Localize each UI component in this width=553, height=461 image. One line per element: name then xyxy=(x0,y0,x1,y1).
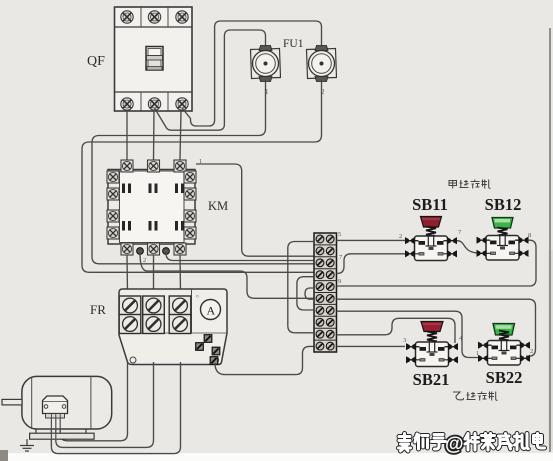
KM screw bot1 xyxy=(121,243,133,255)
FR foot left xyxy=(130,357,136,363)
SB21 terminal rt xyxy=(448,343,458,350)
svg-text:@: @ xyxy=(445,434,464,455)
QF screw 4 bottom xyxy=(121,98,133,110)
QF screw 2 top xyxy=(148,11,160,23)
wire KM T3 to FR xyxy=(179,255,182,293)
watermark souhu hao at kelaiwei jidian xyxy=(399,434,545,456)
wire fuse FU1-2 bottom wrapping left of KM to terminal row 4 xyxy=(82,80,322,272)
wire FR W to motor (col3) xyxy=(51,362,180,454)
svg-text:1: 1 xyxy=(199,158,202,165)
QF screw 6 bottom xyxy=(176,98,188,110)
wire SB11 lb to terminal row4 xyxy=(337,254,406,274)
wire KM T1 to FR xyxy=(126,255,129,293)
SB22 spring xyxy=(499,331,509,341)
svg-text:8: 8 xyxy=(528,232,531,239)
svg-text:SB21: SB21 xyxy=(413,370,450,389)
terminal strip XT xyxy=(314,233,337,352)
wire SB12 rt loop to terminal row5 xyxy=(337,240,537,286)
wire SB11 rt to SB12 lb xyxy=(457,241,477,253)
SB22 terminal lb xyxy=(478,355,488,362)
SB11 terminal lb xyxy=(405,250,415,257)
SB21 body xyxy=(416,341,449,367)
FR dial A xyxy=(201,300,221,320)
svg-text:2: 2 xyxy=(143,257,146,264)
KM screw bot2 xyxy=(148,243,160,255)
SB21 terminal lt xyxy=(406,343,416,350)
wire KM T2 to FR xyxy=(153,255,155,293)
jumper terminal row1 to row9 left loop xyxy=(288,242,314,333)
SB11 terminal rb xyxy=(447,250,457,257)
svg-text:FR: FR xyxy=(90,302,106,317)
KM screw top1 xyxy=(121,160,133,172)
KM screw right2 xyxy=(184,188,196,200)
FR aux screw 96 xyxy=(196,343,204,351)
breaker QF body xyxy=(115,7,193,111)
wire stubs through motor body xyxy=(51,418,60,446)
KM screw left3 xyxy=(107,210,119,222)
wire terminal row7 to SB22 lb xyxy=(337,311,479,357)
SB11 spring xyxy=(426,227,436,237)
KM screw right3 xyxy=(184,210,196,222)
wire FR aux to terminal row 10 xyxy=(215,346,314,374)
wire QF phase to right fuse FU1-2 top xyxy=(182,21,322,126)
wire FR U to motor (col1) xyxy=(60,362,127,441)
svg-text:°: ° xyxy=(196,294,199,302)
KM screw left2 xyxy=(107,188,119,200)
svg-text:1: 1 xyxy=(476,350,479,357)
wire terminal row9 over SB21 to SB21 rt xyxy=(337,318,456,343)
SB12 body xyxy=(486,234,519,260)
SB12 spring xyxy=(498,228,508,238)
KM screw right4 xyxy=(184,227,196,239)
ground xyxy=(20,439,34,451)
FR screw r1c3 xyxy=(169,296,191,315)
svg-text:QF: QF xyxy=(87,54,105,69)
jumper terminal row5 to row6 left loop xyxy=(305,288,314,299)
scan edge right xyxy=(549,28,551,452)
fuse FU1-2 xyxy=(307,46,337,82)
QF screw 1 top xyxy=(121,11,133,23)
FR aux screw 98 xyxy=(210,357,218,365)
label yidi kongzhi (location B control) xyxy=(453,392,498,401)
wire fuse FU1-1 bottom wrapping left of KM to terminal row 3 xyxy=(92,80,314,264)
wire terminal row10 to SB21 lt xyxy=(337,345,406,347)
pushbutton SB12 cap (green) xyxy=(492,218,513,229)
FR screw r2c2 xyxy=(143,315,165,334)
SB12 terminal rb xyxy=(519,250,529,257)
svg-text:2: 2 xyxy=(399,233,402,240)
SB12 terminal lb xyxy=(477,250,487,257)
contactor KM body xyxy=(108,170,195,245)
wire QF L3 to KM xyxy=(180,110,181,160)
pushbutton SB22 cap (green) xyxy=(493,324,515,336)
SB11 terminal rt xyxy=(447,237,457,244)
SB22 terminal lt xyxy=(478,342,488,349)
svg-text:5: 5 xyxy=(338,231,341,238)
wire KM coil A2 to terminal row 2-3 xyxy=(166,253,314,261)
pushbutton SB21 cap (red) xyxy=(421,322,443,332)
thermal relay FR body xyxy=(119,289,227,365)
FR screw r2c1 xyxy=(119,315,141,334)
KM screw left4 xyxy=(107,227,119,239)
motor shaft xyxy=(2,399,22,405)
XT screws xyxy=(316,235,334,350)
motor terminal box xyxy=(43,396,68,414)
breaker QF toggle xyxy=(146,47,163,71)
wire KM coil A1 down right to terminal row 6 xyxy=(140,253,314,298)
QF screw 5 bottom xyxy=(148,98,160,110)
svg-text:9: 9 xyxy=(338,278,341,285)
FR screw r1c1 xyxy=(119,296,141,315)
svg-text:SB22: SB22 xyxy=(486,368,523,387)
motor base xyxy=(30,433,95,439)
svg-text:KM: KM xyxy=(208,199,228,213)
QF screw 3 top xyxy=(176,11,188,23)
SB22 terminal rb xyxy=(520,355,530,362)
wire QF phase to left fuse FU1-1 top xyxy=(155,30,266,130)
svg-text:SB12: SB12 xyxy=(485,195,522,214)
svg-text:FU1: FU1 xyxy=(283,38,304,50)
FR foot right xyxy=(213,357,219,363)
svg-text:2: 2 xyxy=(530,348,533,355)
KM screw bot3 xyxy=(174,243,186,255)
SB11 terminal lt xyxy=(405,237,415,244)
pushbutton SB11 cap (red) xyxy=(421,217,442,228)
wire KM aux top-right to terminal row 2 xyxy=(196,164,314,256)
KM screw top3 xyxy=(174,160,186,172)
SB12 terminal lt xyxy=(477,237,487,244)
SB12 terminal rt xyxy=(519,237,529,244)
svg-text:A: A xyxy=(207,304,216,318)
fuse FU1-1 xyxy=(251,46,281,82)
SB21 spring xyxy=(427,332,437,342)
svg-text:SB11: SB11 xyxy=(412,195,448,214)
wire terminal row6 to SB22 rb xyxy=(337,299,536,356)
motor body xyxy=(22,376,112,429)
FR screw r2c3 xyxy=(169,315,191,334)
SB21 terminal lb xyxy=(406,356,416,363)
label jiadi kongzhi (location A control) xyxy=(449,180,491,189)
FR screw r1c2 xyxy=(143,296,165,315)
svg-text:3: 3 xyxy=(403,337,406,344)
FR aux screw 97 xyxy=(212,347,220,355)
SB11 body xyxy=(415,235,448,261)
FR aux screw 95 xyxy=(204,335,212,343)
SB22 terminal rt xyxy=(520,342,530,349)
SB22 body xyxy=(488,339,521,365)
KM coil screw A1 xyxy=(137,248,144,255)
KM contact bars xyxy=(122,184,184,231)
KM coil screw A2 xyxy=(163,248,170,255)
jumper terminal row4 to row7 left loop xyxy=(297,277,314,310)
wire QF L1 to KM xyxy=(126,110,128,160)
SB21 terminal rb xyxy=(448,356,458,363)
wire FR V to motor (col2) xyxy=(56,362,154,447)
KM screw left1 xyxy=(107,171,119,183)
KM screw top2 xyxy=(148,160,160,172)
KM screw right1 xyxy=(184,171,196,183)
wire QF L2 to KM xyxy=(153,110,156,160)
wire terminal row1 to SB11 xyxy=(337,239,406,241)
